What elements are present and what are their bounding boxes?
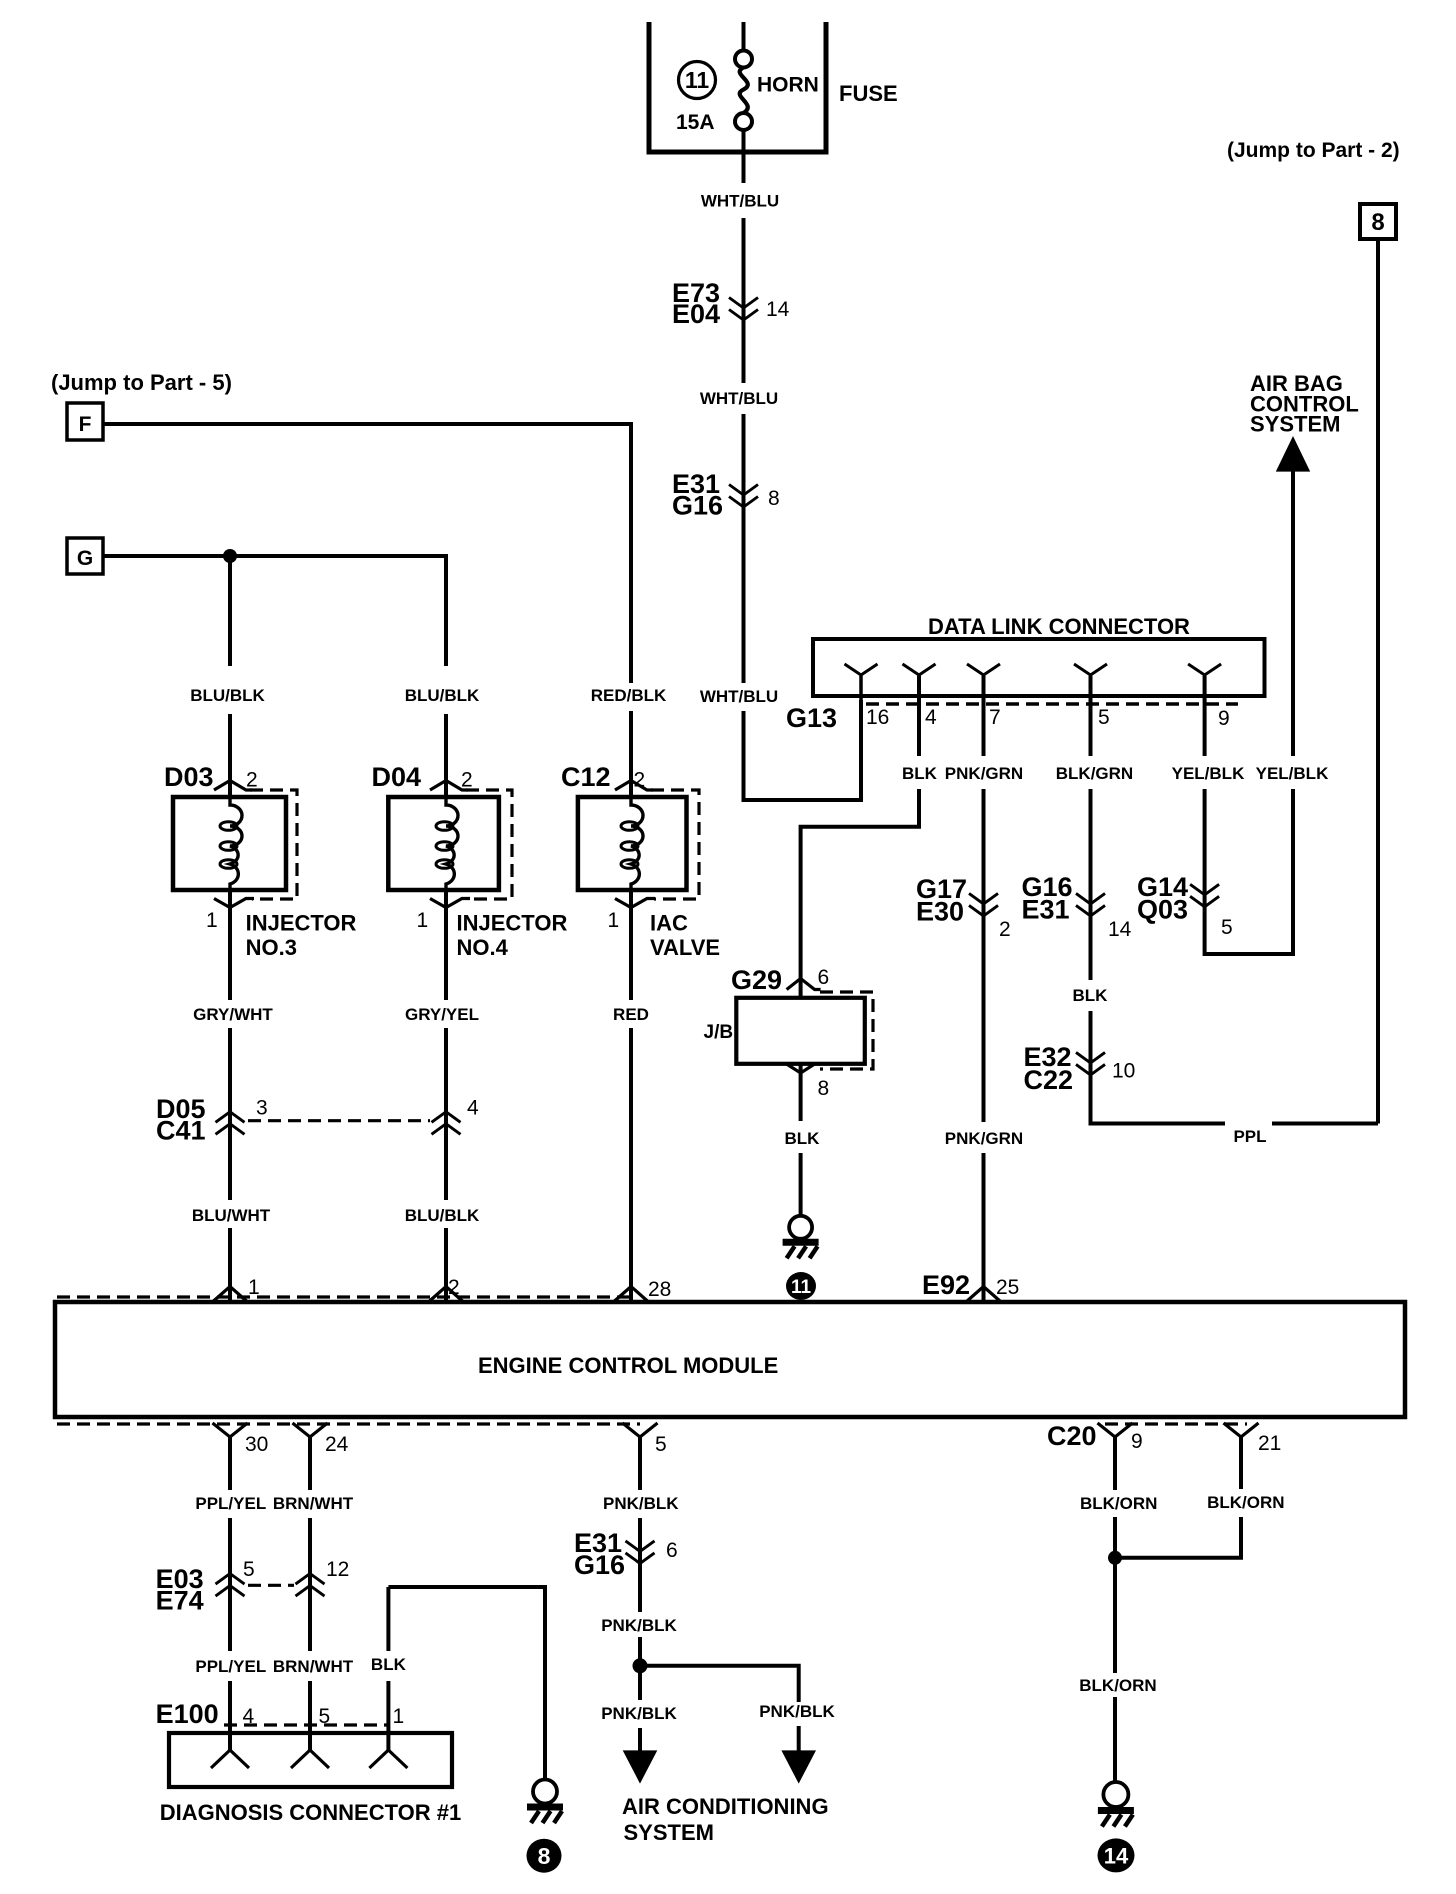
svg-text:24: 24 — [325, 1433, 349, 1456]
svg-text:E31: E31 — [1022, 895, 1070, 925]
svg-text:E92: E92 — [922, 1270, 970, 1300]
svg-text:DIAGNOSIS CONNECTOR #1: DIAGNOSIS CONNECTOR #1 — [160, 1800, 462, 1825]
svg-text:WHT/BLU: WHT/BLU — [701, 192, 779, 211]
svg-text:GRY/YEL: GRY/YEL — [405, 1005, 479, 1024]
svg-text:8: 8 — [768, 487, 780, 510]
svg-text:PNK/GRN: PNK/GRN — [945, 764, 1023, 783]
svg-text:G13: G13 — [786, 703, 837, 733]
svg-text:8: 8 — [538, 1843, 551, 1869]
svg-text:G16: G16 — [574, 1550, 625, 1580]
svg-text:BLK/ORN: BLK/ORN — [1207, 1493, 1284, 1512]
svg-text:BLU/BLK: BLU/BLK — [405, 686, 480, 705]
svg-text:8: 8 — [818, 1077, 830, 1100]
svg-text:14: 14 — [1104, 1843, 1129, 1868]
svg-text:F: F — [79, 413, 92, 436]
svg-text:E30: E30 — [916, 897, 964, 927]
svg-text:SYSTEM: SYSTEM — [1250, 412, 1340, 437]
svg-text:14: 14 — [1108, 918, 1132, 941]
svg-text:HORN: HORN — [757, 74, 819, 97]
svg-text:PNK/GRN: PNK/GRN — [945, 1129, 1023, 1148]
svg-text:PNK/BLK: PNK/BLK — [601, 1616, 677, 1635]
svg-text:5: 5 — [243, 1558, 255, 1581]
svg-text:12: 12 — [326, 1558, 349, 1581]
svg-text:G: G — [77, 547, 93, 570]
svg-text:11: 11 — [791, 1277, 812, 1298]
svg-text:2: 2 — [246, 769, 258, 792]
svg-text:2: 2 — [461, 769, 473, 792]
svg-text:G29: G29 — [731, 965, 782, 995]
svg-text:BLK/ORN: BLK/ORN — [1080, 1494, 1157, 1513]
svg-text:YEL/BLK: YEL/BLK — [1172, 764, 1245, 783]
svg-text:BLK: BLK — [785, 1129, 821, 1148]
svg-text:C22: C22 — [1024, 1065, 1074, 1095]
svg-text:16: 16 — [866, 706, 889, 729]
svg-text:21: 21 — [1258, 1432, 1281, 1455]
svg-text:YEL/BLK: YEL/BLK — [1256, 764, 1329, 783]
svg-text:BLK: BLK — [902, 764, 938, 783]
svg-text:4: 4 — [925, 706, 937, 729]
svg-text:14: 14 — [766, 298, 790, 321]
svg-text:FUSE: FUSE — [839, 81, 898, 106]
svg-text:BRN/WHT: BRN/WHT — [273, 1494, 354, 1513]
svg-text:DATA LINK CONNECTOR: DATA LINK CONNECTOR — [928, 614, 1190, 639]
svg-text:BLK: BLK — [371, 1655, 407, 1674]
svg-text:6: 6 — [818, 966, 830, 989]
svg-text:NO.3: NO.3 — [246, 935, 297, 960]
svg-text:C20: C20 — [1047, 1421, 1097, 1451]
svg-text:Q03: Q03 — [1137, 895, 1188, 925]
svg-text:GRY/WHT: GRY/WHT — [193, 1005, 273, 1024]
svg-text:NO.4: NO.4 — [457, 935, 509, 960]
svg-text:11: 11 — [685, 67, 710, 93]
svg-text:ENGINE CONTROL MODULE: ENGINE CONTROL MODULE — [478, 1353, 778, 1378]
svg-text:PPL: PPL — [1233, 1127, 1266, 1146]
svg-text:INJECTOR: INJECTOR — [246, 911, 357, 936]
svg-text:9: 9 — [1218, 707, 1230, 730]
svg-text:7: 7 — [989, 706, 1001, 729]
svg-text:D04: D04 — [372, 762, 422, 792]
svg-text:C41: C41 — [156, 1116, 206, 1146]
svg-text:2: 2 — [448, 1276, 460, 1299]
svg-text:AIR CONDITIONING: AIR CONDITIONING — [622, 1794, 829, 1819]
svg-text:2: 2 — [634, 769, 646, 792]
svg-text:PNK/BLK: PNK/BLK — [759, 1702, 835, 1721]
svg-text:1: 1 — [248, 1276, 260, 1299]
svg-text:IAC: IAC — [650, 911, 688, 936]
svg-text:PPL/YEL: PPL/YEL — [195, 1494, 266, 1513]
svg-text:SYSTEM: SYSTEM — [624, 1820, 714, 1845]
svg-text:1: 1 — [417, 909, 429, 932]
svg-text:6: 6 — [666, 1539, 678, 1562]
svg-text:VALVE: VALVE — [650, 935, 720, 960]
svg-text:4: 4 — [467, 1097, 479, 1120]
svg-text:PPL/YEL: PPL/YEL — [195, 1657, 266, 1676]
svg-text:WHT/BLU: WHT/BLU — [700, 389, 778, 408]
svg-text:BLU/BLK: BLU/BLK — [190, 686, 265, 705]
svg-text:1: 1 — [608, 909, 620, 932]
svg-text:BRN/WHT: BRN/WHT — [273, 1657, 354, 1676]
svg-text:PNK/BLK: PNK/BLK — [603, 1494, 679, 1513]
svg-text:9: 9 — [1131, 1430, 1143, 1453]
svg-text:(Jump to Part - 5): (Jump to Part - 5) — [51, 370, 232, 395]
svg-text:PNK/BLK: PNK/BLK — [601, 1704, 677, 1723]
svg-text:2: 2 — [999, 918, 1011, 941]
svg-text:BLU/BLK: BLU/BLK — [405, 1206, 480, 1225]
svg-text:(Jump to Part - 2): (Jump to Part - 2) — [1227, 139, 1400, 162]
svg-text:E74: E74 — [156, 1586, 204, 1616]
svg-text:30: 30 — [245, 1433, 268, 1456]
svg-text:BLK/ORN: BLK/ORN — [1079, 1676, 1156, 1695]
svg-text:J/B: J/B — [704, 1022, 734, 1043]
svg-text:8: 8 — [1371, 209, 1384, 236]
svg-text:28: 28 — [648, 1278, 671, 1301]
svg-text:D03: D03 — [164, 762, 214, 792]
svg-text:E04: E04 — [672, 299, 720, 329]
svg-text:E100: E100 — [156, 1699, 219, 1729]
svg-text:C12: C12 — [561, 762, 611, 792]
svg-text:RED: RED — [613, 1005, 649, 1024]
svg-text:G16: G16 — [672, 491, 723, 521]
svg-text:INJECTOR: INJECTOR — [457, 911, 568, 936]
svg-text:3: 3 — [256, 1097, 268, 1120]
svg-text:25: 25 — [996, 1276, 1019, 1299]
svg-text:1: 1 — [393, 1705, 405, 1728]
svg-text:5: 5 — [1098, 706, 1110, 729]
svg-text:5: 5 — [655, 1433, 667, 1456]
svg-text:1: 1 — [206, 909, 218, 932]
svg-text:BLK/GRN: BLK/GRN — [1056, 764, 1133, 783]
svg-text:BLU/WHT: BLU/WHT — [192, 1206, 271, 1225]
svg-text:10: 10 — [1112, 1060, 1135, 1083]
svg-text:15A: 15A — [676, 111, 715, 134]
svg-text:WHT/BLU: WHT/BLU — [700, 687, 778, 706]
svg-text:5: 5 — [1221, 916, 1233, 939]
svg-text:RED/BLK: RED/BLK — [591, 686, 667, 705]
svg-text:BLK: BLK — [1073, 986, 1109, 1005]
